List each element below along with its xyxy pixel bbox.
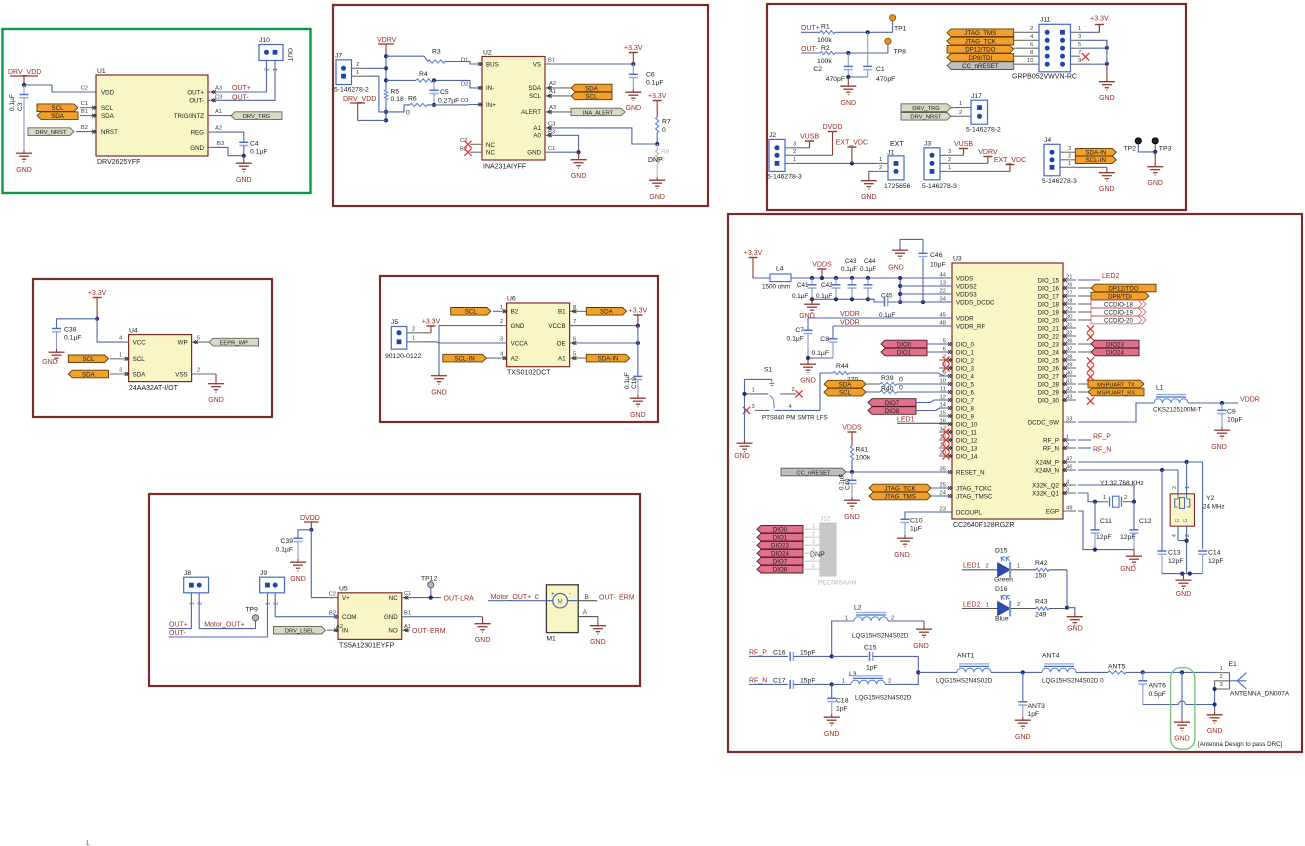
svg-text:OUT+: OUT+ <box>187 89 204 96</box>
svg-text:GND: GND <box>734 453 750 460</box>
net flag SCL at U4 <box>68 355 108 363</box>
svg-text:U1: U1 <box>97 68 106 75</box>
net flag SDA-IN <box>1075 148 1116 156</box>
resistor R43 <box>1011 599 1068 619</box>
svg-text:47: 47 <box>1066 456 1072 462</box>
pin 16 DIO_10 <box>939 418 952 426</box>
pin 37 DIO_24 <box>1063 346 1076 354</box>
svg-text:C44: C44 <box>864 258 876 265</box>
svg-text:2: 2 <box>1220 674 1223 680</box>
connector J8 <box>184 570 209 605</box>
ground for C46 <box>888 247 908 272</box>
svg-text:DIO7: DIO7 <box>885 400 900 407</box>
svg-text:GND: GND <box>16 167 32 174</box>
svg-text:OUT+: OUT+ <box>232 85 251 92</box>
svg-text:10: 10 <box>1027 58 1033 64</box>
svg-text:CKS2125100M-T: CKS2125100M-T <box>1153 407 1202 414</box>
svg-text:470pF: 470pF <box>826 76 845 83</box>
resistor R42 <box>1011 560 1068 580</box>
svg-text:JTAG_TCK: JTAG_TCK <box>965 38 997 45</box>
pin A1 TRIG/INTZ <box>208 109 231 116</box>
ground at S1 <box>734 440 752 460</box>
svg-text:LED2: LED2 <box>1102 273 1120 280</box>
svg-text:L4: L4 <box>776 266 784 273</box>
svg-text:DIO_1: DIO_1 <box>956 349 974 356</box>
pin B of M1 and OUT- ERM <box>578 594 635 602</box>
svg-text:A3: A3 <box>215 86 222 92</box>
net flag DP12/TDO at U3 <box>1078 284 1156 292</box>
svg-text:EGP: EGP <box>1046 508 1059 515</box>
svg-text:DIO_9: DIO_9 <box>956 413 974 420</box>
svg-text:A1: A1 <box>549 89 556 95</box>
svg-text:D2: D2 <box>461 81 468 87</box>
frame connector section <box>767 4 1186 210</box>
node VS junction <box>631 62 635 66</box>
pin C1 GND wire <box>545 146 579 152</box>
pin C3 A1 wire to R7 <box>545 122 657 145</box>
pin 4 VCC <box>119 336 129 343</box>
pin 1 J5 wire to VCCA <box>407 335 507 343</box>
svg-text:12pF: 12pF <box>1120 534 1136 541</box>
net flag SDA at U2 <box>571 84 612 92</box>
pin A2 IN <box>327 624 343 632</box>
power flag +3.3V at R7 <box>648 93 667 117</box>
net flag DRV_NRST <box>28 128 74 136</box>
svg-text:2: 2 <box>792 387 795 393</box>
svg-text:C13: C13 <box>1168 550 1181 557</box>
pin 5 WP <box>192 336 209 344</box>
svg-text:1µF: 1µF <box>910 526 922 533</box>
net flag SCL at U3 <box>824 388 880 396</box>
pin D1 BUS <box>461 58 482 66</box>
svg-text:DIO0: DIO0 <box>773 527 788 534</box>
svg-text:OUT-: OUT- <box>599 595 616 602</box>
svg-text:SDA-IN: SDA-IN <box>598 355 619 362</box>
svg-text:2: 2 <box>1185 534 1191 537</box>
svg-text:2: 2 <box>197 602 203 605</box>
power flag VUSB at J2 <box>800 134 819 148</box>
net label RF_P <box>749 650 788 657</box>
net flag DIO23 at U3 <box>1078 340 1139 348</box>
wire U6 GND to ground <box>438 326 440 373</box>
node gnd rail C44 <box>866 297 870 301</box>
svg-text:VDDS: VDDS <box>812 261 832 268</box>
diode D16 blue <box>995 586 1020 622</box>
svg-text:1pF: 1pF <box>836 706 848 713</box>
svg-text:OE: OE <box>557 340 566 347</box>
capacitor ANT3 <box>1018 672 1045 718</box>
wire bus to VDDS pin <box>900 277 952 279</box>
node C13 tap <box>1160 468 1164 472</box>
svg-text:R8: R8 <box>661 149 670 156</box>
svg-text:LED1: LED1 <box>897 417 915 424</box>
svg-text:470pF: 470pF <box>876 76 895 83</box>
net label LED2 wire <box>1078 279 1100 281</box>
svg-text:12pF: 12pF <box>1096 534 1112 541</box>
svg-text:37: 37 <box>1066 346 1072 352</box>
svg-text:DRV_NRST: DRV_NRST <box>35 130 67 136</box>
svg-text:IN+: IN+ <box>486 102 496 109</box>
svg-text:LQG15HS2N4S02D: LQG15HS2N4S02D <box>855 695 912 702</box>
svg-text:1: 1 <box>1185 486 1191 489</box>
svg-text:1: 1 <box>1078 26 1081 32</box>
ground for L2 <box>913 626 932 650</box>
wire E1 pin3 to ground <box>1214 689 1216 712</box>
power flag +3.3V at U6 <box>629 308 648 326</box>
svg-text:DIO_4: DIO_4 <box>956 373 974 380</box>
net flag DIO24 at J12 <box>757 548 820 558</box>
net flag DRV_NRST at J17 <box>901 110 971 121</box>
connector J9 <box>260 570 285 605</box>
svg-text:G: G <box>1183 519 1189 523</box>
svg-text:VDRV: VDRV <box>978 149 998 156</box>
svg-text:R42: R42 <box>1035 560 1048 567</box>
svg-text:C38: C38 <box>64 327 77 334</box>
svg-text:LQG15HS2N4S02D: LQG15HS2N4S02D <box>936 677 993 684</box>
svg-text:J8: J8 <box>184 570 191 577</box>
net label VDDR <box>808 311 952 318</box>
net flag DIO7 at U3 <box>868 399 952 407</box>
svg-text:0.5pF: 0.5pF <box>1149 691 1166 698</box>
svg-text:DIO1: DIO1 <box>773 535 788 542</box>
net flag DP8/TDI <box>947 50 1039 62</box>
power flag VDRV at J3 <box>978 149 998 163</box>
svg-text:+: + <box>551 591 554 597</box>
power flag VDRV <box>377 37 397 56</box>
svg-text:10µF: 10µF <box>1227 417 1243 424</box>
svg-text:INA_ALERT: INA_ALERT <box>583 110 614 116</box>
svg-text:15pF: 15pF <box>800 650 816 657</box>
pin 20 DIO_14 <box>939 450 952 458</box>
svg-text:C8: C8 <box>820 336 829 343</box>
svg-text:C45: C45 <box>881 293 893 300</box>
node RF main junction <box>916 670 920 674</box>
net flag JTAG_TCK at U3 <box>869 484 952 492</box>
node bus pin22 <box>898 292 902 296</box>
svg-text:DIO_20: DIO_20 <box>1038 317 1060 324</box>
svg-text:DIO_30: DIO_30 <box>1038 397 1060 404</box>
pin 2 VSS <box>192 368 216 375</box>
wire C7 C8 common <box>808 357 833 359</box>
svg-text:Y1 32.768 KHz: Y1 32.768 KHz <box>1100 480 1144 487</box>
svg-text:SDA: SDA <box>585 85 599 92</box>
svg-text:DIO23: DIO23 <box>1106 341 1124 348</box>
wire DCDC_SW to L1 <box>1078 403 1154 422</box>
net flag DIO8 at U3 <box>868 407 952 415</box>
svg-text:DIO_5: DIO_5 <box>956 381 974 388</box>
pin B1 VS wire <box>545 58 633 65</box>
svg-text:1: 1 <box>948 165 951 171</box>
net flag DRV_TRG at J17 <box>901 101 971 112</box>
svg-text:DIO_25: DIO_25 <box>1038 357 1060 364</box>
svg-text:2: 2 <box>812 532 815 538</box>
svg-text:35: 35 <box>940 466 946 472</box>
node J11 gnd junction 2 <box>1105 62 1109 66</box>
net label OUT- at J9 <box>169 630 268 637</box>
svg-text:30: 30 <box>1066 314 1072 320</box>
net label Motor_OUT+ at M1 <box>488 594 546 601</box>
svg-text:Motor_OUT+: Motor_OUT+ <box>204 621 245 628</box>
net flag EEPR_WP <box>209 338 259 346</box>
ground for J4 <box>1099 170 1115 194</box>
pin 3 SDA <box>110 368 129 376</box>
svg-text:R3: R3 <box>432 49 441 56</box>
resistor R7 <box>656 117 671 134</box>
connector J7 <box>334 53 369 94</box>
svg-text:VCCA: VCCA <box>511 340 529 347</box>
node rail C42 <box>834 276 838 280</box>
ground for U5 <box>475 617 491 644</box>
net flag CCDIO-20 <box>1078 316 1146 324</box>
svg-text:GND: GND <box>913 643 929 650</box>
svg-text:D1: D1 <box>461 58 468 64</box>
wire +3.3V rail to C19 <box>637 326 639 376</box>
node S1 junction <box>742 392 746 396</box>
pin 2 J4 to SCL-IN <box>1060 153 1075 159</box>
svg-text:0.1µF: 0.1µF <box>624 372 631 389</box>
svg-text:LED2: LED2 <box>963 601 981 608</box>
svg-text:C18: C18 <box>836 698 849 705</box>
svg-text:DIO24: DIO24 <box>771 551 789 558</box>
svg-text:1pF: 1pF <box>1028 711 1040 718</box>
svg-text:1: 1 <box>356 70 359 76</box>
svg-text:DIO8: DIO8 <box>885 408 900 415</box>
ground for bypass caps <box>799 299 820 320</box>
net flag JTAG_TMS <box>947 26 1039 37</box>
svg-text:VDDR: VDDR <box>840 311 860 318</box>
svg-text:C3: C3 <box>215 94 222 100</box>
svg-text:2: 2 <box>1066 442 1069 448</box>
net label Motor_OUT+ <box>199 621 255 628</box>
pin 3 J3 to VUSB <box>940 149 964 155</box>
svg-text:5-146278-3: 5-146278-3 <box>922 183 957 190</box>
capacitor C41 <box>792 278 817 300</box>
svg-text:LQG15HS2N4S02D: LQG15HS2N4S02D <box>852 633 909 640</box>
svg-text:3: 3 <box>500 337 503 343</box>
capacitor C39 <box>275 530 311 559</box>
net label RF_N <box>749 678 788 685</box>
page number <box>86 841 90 846</box>
svg-text:Blue: Blue <box>995 615 1009 622</box>
connector J5 <box>385 319 422 360</box>
svg-text:VDDR_RF: VDDR_RF <box>956 323 985 330</box>
pin 36 DIO_23 <box>1063 338 1076 346</box>
net flag JTAG_TMS at U3 <box>869 492 952 500</box>
svg-text:12pF: 12pF <box>1208 558 1224 565</box>
capacitor C9 <box>1218 403 1243 427</box>
svg-text:GND: GND <box>1176 591 1192 598</box>
svg-text:[Antenna Design to pass DR: [Antenna Design to pass DRC] <box>1198 741 1283 748</box>
ground for C4 <box>236 156 252 184</box>
wire bus to VDDS3 pin <box>900 293 952 295</box>
pin 40 DIO_27 <box>1063 370 1076 378</box>
svg-text:A2: A2 <box>549 81 556 87</box>
svg-text:J5: J5 <box>391 319 398 326</box>
svg-text:CC_nRESET: CC_nRESET <box>962 63 999 70</box>
testpoint TP3 <box>1152 138 1171 153</box>
svg-text:JTAG_TMS: JTAG_TMS <box>964 30 996 37</box>
svg-text:RF_P: RF_P <box>749 650 767 657</box>
wire ANT1 to ANT4 <box>991 671 1042 673</box>
svg-text:43: 43 <box>1066 394 1072 400</box>
svg-text:DIO8: DIO8 <box>773 567 788 574</box>
svg-text:U3: U3 <box>953 256 962 263</box>
svg-text:J7: J7 <box>335 53 342 60</box>
svg-text:24 MHz: 24 MHz <box>1203 504 1225 511</box>
pin 31 DIO_21 <box>1063 322 1076 330</box>
svg-text:ANTENNA_DN007A: ANTENNA_DN007A <box>1230 691 1290 698</box>
pin 34 VDDS_DCDC <box>939 296 952 302</box>
capacitor C45 <box>868 293 895 320</box>
pin A2 SDA wire <box>545 81 571 90</box>
svg-text:A3: A3 <box>549 105 556 111</box>
svg-text:3: 3 <box>948 149 951 155</box>
svg-text:C19: C19 <box>631 377 638 389</box>
inductor L4 ferrite <box>762 266 791 291</box>
svg-text:0.1µF: 0.1µF <box>646 80 664 87</box>
ground at E1 <box>1207 712 1223 735</box>
svg-text:0.1µF: 0.1µF <box>64 335 82 342</box>
no-connect X DIO_3 <box>942 364 949 371</box>
svg-text:0.1µF: 0.1µF <box>841 266 857 273</box>
svg-text:2: 2 <box>1068 153 1071 159</box>
pin 26 DIO_16 <box>1063 282 1076 290</box>
pin 49 EGP <box>1063 505 1076 511</box>
svg-text:41: 41 <box>1066 378 1072 384</box>
svg-text:VCCB: VCCB <box>548 323 565 330</box>
no-connect X S1 pin2 <box>795 390 802 397</box>
svg-text:49: 49 <box>1066 505 1072 511</box>
svg-text:1: 1 <box>986 602 989 608</box>
wire +3.3V to C38 <box>57 319 98 328</box>
svg-text:+3.3V: +3.3V <box>648 93 667 100</box>
resistor R40 <box>880 385 952 394</box>
svg-text:2: 2 <box>986 564 989 570</box>
net flag DIO1 at J12 <box>757 532 820 542</box>
pin 2 RF_N <box>1063 442 1076 450</box>
svg-text:C46: C46 <box>930 252 943 259</box>
svg-text:VDDR: VDDR <box>956 315 974 322</box>
svg-text:SCL-IN: SCL-IN <box>454 355 474 362</box>
svg-text:CCDIO-18: CCDIO-18 <box>1104 301 1133 308</box>
svg-text:VDD: VDD <box>101 89 115 96</box>
svg-text:DNP: DNP <box>648 157 663 164</box>
svg-text:2: 2 <box>356 62 359 68</box>
svg-text:MSPUART_RX: MSPUART_RX <box>1097 390 1135 396</box>
svg-text:C4: C4 <box>250 140 259 147</box>
svg-text:5: 5 <box>812 556 815 562</box>
inductor ANT4 <box>1042 653 1104 685</box>
net label VDDR at C9 <box>1240 397 1260 404</box>
svg-text:8: 8 <box>1030 50 1033 56</box>
svg-text:0: 0 <box>662 127 666 134</box>
pin 1 J2 to J1 <box>785 157 876 163</box>
wire RF_P to C15 <box>832 655 868 657</box>
pin 21 DIO_15 <box>1063 274 1076 282</box>
power flag +3.3V at U4 <box>88 290 107 319</box>
ground for C6 <box>625 89 641 112</box>
pin 46 X24M_N <box>1063 464 1076 472</box>
svg-text:28: 28 <box>1066 298 1072 304</box>
ground for J1 <box>861 178 877 202</box>
net label LED2 at D16 <box>962 601 998 608</box>
node gnd rail C41 <box>810 297 814 301</box>
pin 17 DIO_11 <box>939 426 952 434</box>
pin 10 DIO_5 <box>939 378 952 386</box>
power flag +3.3V at J11 <box>1090 16 1109 33</box>
capacitor C11 <box>1091 502 1113 550</box>
wire VDDS bus vertical <box>899 278 901 302</box>
svg-text:R44: R44 <box>836 363 849 370</box>
pin 43 DIO_30 <box>1063 394 1076 402</box>
svg-text:44: 44 <box>940 272 947 278</box>
pin 24 JTAG_TMSC <box>939 490 952 498</box>
svg-text:RF_P: RF_P <box>1093 434 1111 441</box>
node REG-GND junction <box>242 154 246 158</box>
node R7 junction <box>655 142 659 146</box>
pin 23 DCOUPL <box>939 506 952 512</box>
svg-text:B2: B2 <box>81 125 88 131</box>
pin 1 J4 to ground <box>1060 161 1107 170</box>
svg-text:90120-0122: 90120-0122 <box>385 353 422 360</box>
wire J11 gnd bus <box>1106 40 1108 64</box>
wire L2 right to ground <box>888 621 924 626</box>
pin 1 B2 <box>493 305 507 313</box>
svg-text:7: 7 <box>573 319 576 325</box>
svg-text:C1: C1 <box>81 101 88 107</box>
resistor R39 <box>880 375 952 386</box>
svg-text:GND: GND <box>236 177 252 184</box>
svg-text:C9: C9 <box>1227 409 1236 416</box>
svg-text:GND: GND <box>475 637 491 644</box>
capacitor ANT6 <box>1138 672 1214 704</box>
resistor R4 <box>386 71 482 88</box>
svg-text:GND: GND <box>888 265 904 272</box>
testpoint TP12 <box>421 576 437 598</box>
net flag SDA at U6 <box>586 308 626 316</box>
node VDRV junction 3 <box>384 78 388 82</box>
ground for C7 C8 <box>800 358 816 385</box>
svg-text:B2: B2 <box>511 309 519 316</box>
svg-text:DIO_11: DIO_11 <box>956 429 977 436</box>
svg-text:SCL: SCL <box>82 356 95 363</box>
svg-text:NO: NO <box>388 627 397 634</box>
svg-text:SDA: SDA <box>51 113 65 120</box>
no-connect X DIO_2 <box>942 356 949 363</box>
svg-text:SDA: SDA <box>600 309 614 316</box>
svg-text:DIO_28: DIO_28 <box>1038 381 1060 388</box>
svg-text:OUT-: OUT- <box>189 98 204 105</box>
node OE junction <box>636 341 640 345</box>
svg-text:C11: C11 <box>1100 518 1112 525</box>
wire antenna gnd stub <box>1181 672 1183 719</box>
svg-text:R5: R5 <box>391 89 400 96</box>
wire ANT4 to ANT5 <box>1076 671 1108 673</box>
svg-text:SDA: SDA <box>839 381 853 388</box>
svg-text:JTAG_TCKC: JTAG_TCKC <box>956 485 992 492</box>
net flag DIO0 at U3 <box>881 340 952 348</box>
pin 9 J11 <box>1071 58 1107 64</box>
net flag DP12/TDO <box>947 42 1039 54</box>
no-connect X S1 pin3 <box>743 407 750 414</box>
svg-text:DIO_6: DIO_6 <box>956 389 974 396</box>
svg-text:24AA32AT-I/OT: 24AA32AT-I/OT <box>129 385 179 392</box>
svg-text:G: G <box>1175 519 1181 523</box>
svg-text:0.18: 0.18 <box>391 96 404 103</box>
svg-text:DIO_22: DIO_22 <box>1038 333 1060 340</box>
svg-text:C42: C42 <box>821 282 833 289</box>
svg-text:6: 6 <box>1030 42 1033 48</box>
